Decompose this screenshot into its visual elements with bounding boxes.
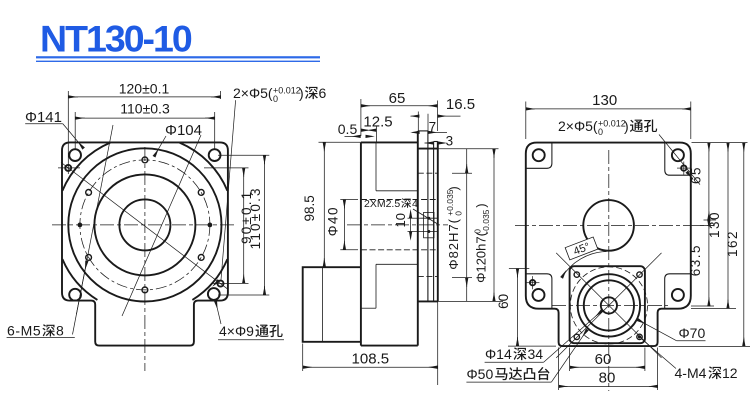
motor bore phi14 [601, 297, 617, 313]
dim 12.5 [361, 126, 376, 142]
flange body outline with bottom tab [62, 142, 228, 345]
hidden lines phi82 recess [418, 172, 438, 174]
dim 0.5 [345, 135, 372, 137]
M4 holes 4x [574, 272, 642, 340]
bore circle (phi40) [119, 199, 170, 250]
corner hole phi9 bottom-right [208, 288, 220, 300]
pin hole phi5 TR [681, 165, 686, 170]
svg-text:8: 8 [56, 323, 64, 339]
flange right edge [437, 142, 439, 302]
dim 60 bottom [570, 348, 645, 372]
dim 90+-0.1 vertical [204, 168, 249, 284]
6-M5 leader long line [73, 125, 114, 335]
phi104 leader long line [122, 135, 201, 316]
dim 16.5 [411, 115, 461, 117]
svg-text:Φ14: Φ14 [485, 346, 512, 362]
svg-text:10: 10 [393, 213, 408, 227]
svg-text:Φ50: Φ50 [467, 366, 494, 382]
boss circle (phi82) [94, 174, 195, 275]
svg-text:80: 80 [599, 370, 616, 387]
corner hole phi9 BR [672, 289, 684, 301]
svg-text:60: 60 [595, 351, 612, 368]
pin TL cross tick [58, 167, 80, 169]
svg-text:2×Φ5(: 2×Φ5( [558, 118, 598, 134]
svg-text:130: 130 [707, 211, 722, 238]
svg-text:Φ40: Φ40 [326, 206, 341, 236]
corner hole phi9 BL [533, 289, 545, 301]
ext lines above flange [418, 112, 428, 132]
body bottom edge [361, 345, 418, 347]
body main block left edge [360, 142, 362, 345]
outer circle (phi120 spigot) [68, 148, 221, 301]
main body block [303, 131, 438, 346]
dim 7 [412, 131, 447, 133]
svg-text:108.5: 108.5 [352, 350, 390, 367]
svg-text:34: 34 [528, 346, 544, 362]
svg-text:Φ104: Φ104 [165, 122, 202, 139]
svg-text:0: 0 [598, 127, 603, 137]
dim phi120h7 [438, 149, 503, 301]
svg-text:110±0.3: 110±0.3 [248, 186, 263, 249]
svg-text:0: 0 [273, 94, 278, 104]
motor horizontal centerline [552, 304, 668, 306]
centerline horizontal [52, 224, 237, 226]
svg-text:2XM2.5: 2XM2.5 [364, 198, 400, 210]
dim 108.5 bottom [303, 301, 438, 385]
svg-text:6-M5: 6-M5 [7, 323, 41, 339]
45 deg angular dim [562, 252, 607, 278]
dim phi40 [340, 200, 358, 250]
M2.5 tapped holes hidden detail [413, 209, 439, 238]
motor boss circle phi50 [584, 280, 634, 330]
flange bottom edge [418, 300, 438, 302]
corner hole phi9 bottom-left [69, 289, 81, 301]
centerline vertical right view [608, 150, 610, 391]
svg-text:0.5: 0.5 [338, 121, 358, 137]
svg-text:130: 130 [592, 92, 617, 109]
title double underline [36, 56, 320, 58]
svg-text:4-M4: 4-M4 [675, 365, 707, 381]
centerline horizontal right view [515, 224, 715, 226]
motor flange square [570, 266, 645, 343]
motor diagonal centerline B [556, 253, 661, 358]
svg-text:-0.035: -0.035 [481, 209, 491, 233]
svg-text:63.5: 63.5 [688, 244, 703, 276]
svg-text:NT130-10: NT130-10 [40, 18, 192, 60]
back square outline with bottom tab [526, 143, 691, 347]
tab side edge in box [322, 267, 324, 342]
svg-text:): ) [299, 85, 304, 101]
dim 162 right [743, 143, 745, 346]
svg-text:60: 60 [496, 294, 511, 309]
svg-text:7: 7 [429, 120, 437, 135]
svg-text:16.5: 16.5 [446, 96, 475, 113]
center line middle view [347, 224, 448, 226]
svg-text:98.5: 98.5 [302, 195, 317, 221]
svg-text:Φ70: Φ70 [679, 325, 706, 341]
bolt circle phi104 dash-dot [80, 160, 210, 290]
dim 98.5 [303, 142, 361, 267]
rim A on back face (7mm) [418, 131, 438, 302]
svg-text:0: 0 [454, 211, 464, 216]
motor diagonal centerline A [556, 253, 661, 358]
svg-text:12.5: 12.5 [363, 114, 392, 131]
svg-text:Φ82H7(: Φ82H7( [446, 218, 461, 270]
phi141 corner arcs [62, 143, 227, 300]
flange plate left edge [417, 131, 419, 346]
svg-text:4×Φ9: 4×Φ9 [219, 323, 254, 339]
body top edge [361, 141, 418, 143]
svg-text:2×Φ5(: 2×Φ5( [233, 85, 273, 101]
corner hole phi9 TR [672, 149, 684, 161]
dim 65 top [361, 99, 438, 136]
dim 60 left [508, 269, 556, 347]
leader 2xphi5 to pin BR [221, 100, 236, 281]
leader dot at M4 BR [638, 335, 641, 338]
dim 80 bottom [559, 348, 658, 391]
svg-text:): ) [474, 203, 489, 207]
phi104 short leader [154, 136, 166, 156]
big circle phi40 output (back) [583, 200, 634, 251]
internal bore steps (section) [361, 142, 418, 308]
dim 110+-0.3 top [75, 112, 215, 150]
leader 2xphi5 [659, 135, 700, 185]
svg-text:120±0.1: 120±0.1 [119, 80, 170, 96]
svg-text:): ) [624, 118, 629, 134]
corner pads thin outlines [526, 143, 691, 309]
svg-text:3: 3 [446, 134, 454, 149]
svg-text:65: 65 [689, 166, 704, 184]
svg-text:12: 12 [722, 365, 738, 381]
hidden lines phi40 bore [361, 173, 438, 276]
M5 holes on bolt circle (6x) [86, 157, 204, 293]
pin hole phi5 BL [530, 280, 535, 285]
dim 10 (M2.5 spacing) [408, 212, 421, 239]
svg-text:6: 6 [319, 85, 327, 101]
centerline vertical [144, 147, 146, 371]
pin TR cross ticks [526, 162, 691, 290]
dim phi82H7 [438, 149, 499, 302]
svg-text:Φ120h7(: Φ120h7( [474, 231, 489, 283]
dim 120+-0.1 [68, 91, 220, 174]
svg-text:): ) [446, 186, 461, 190]
pin diagonal centerline [61, 162, 228, 289]
corner hole phi9 top-left [69, 149, 81, 161]
motor circle phi70 [578, 274, 640, 336]
dowel pin phi5 bottom-right [218, 281, 224, 287]
motor bolt circle dashed [570, 267, 647, 344]
dim 130 top [526, 102, 691, 140]
corner hole phi9 top-right [209, 149, 221, 161]
svg-text:162: 162 [725, 230, 740, 257]
svg-text:4: 4 [412, 198, 418, 210]
dim 130 right [727, 143, 729, 308]
flange top edge [418, 148, 438, 150]
dim 110+-0.3 vertical [218, 155, 269, 295]
svg-text:65: 65 [389, 90, 406, 107]
rim B (3mm) [434, 141, 438, 143]
dowel pin phi5 top-left [65, 165, 71, 171]
dim 3 [425, 142, 445, 144]
corner hole phi9 TL [533, 149, 545, 161]
svg-text:110±0.3: 110±0.3 [120, 101, 170, 117]
dim 63.5 right [708, 220, 710, 306]
right side extension lines [659, 143, 750, 347]
filled dots on bolt circle at 0/180 deg [78, 223, 83, 228]
dim 65 right [704, 143, 717, 220]
body left box [303, 267, 361, 342]
